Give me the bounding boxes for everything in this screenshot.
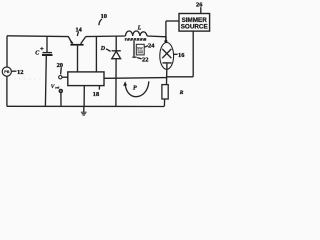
control box 18: [68, 72, 104, 86]
label D leader: [106, 49, 111, 52]
current path P arrow arrowhead: [123, 81, 127, 86]
current path P arc: [125, 81, 149, 96]
wire simmer feed down to lamp node: [165, 21, 167, 41]
svg-text:20: 20: [57, 62, 63, 69]
svg-text:SW: SW: [137, 46, 143, 50]
wire simmer return vertical: [192, 31, 194, 77]
svg-text:P: P: [133, 86, 137, 92]
resistor R: [162, 85, 168, 99]
capacitor plus sign: [40, 47, 43, 50]
switch SW foot: [132, 57, 136, 58]
label 16 leader: [174, 53, 178, 55]
capacitor C plates: [42, 53, 53, 55]
svg-text:PB: PB: [4, 70, 10, 74]
input terminal 20: [59, 76, 62, 79]
wire box bottom to rail: [83, 86, 85, 107]
svg-text:L: L: [137, 25, 142, 31]
wire lamp bottom to resistor: [166, 69, 168, 84]
collector slant: [81, 37, 86, 44]
svg-text:C: C: [35, 51, 40, 57]
switch SW box 22: [136, 44, 144, 55]
svg-text:24: 24: [148, 42, 155, 49]
lamp T electrode: [163, 62, 172, 64]
svg-text:12: 12: [17, 69, 23, 76]
diode D line upper: [115, 36, 117, 51]
inductor core: [125, 38, 146, 41]
svg-text:R: R: [179, 90, 184, 96]
inductor L: [126, 31, 148, 36]
emitter slant: [68, 37, 72, 44]
svg-text:V: V: [51, 84, 55, 90]
wire left vertical upper: [6, 36, 8, 67]
wire vertical top to box (x=96.5): [95, 36, 97, 72]
label 26 leader: [200, 7, 202, 13]
ground: [81, 112, 87, 115]
pushbutton PB 12: [2, 67, 11, 76]
wire Vref to bottom rail: [60, 93, 62, 107]
simmer source box 26: [179, 14, 210, 32]
label Vref: [51, 84, 60, 90]
label 12 leader: [12, 70, 17, 72]
diode D line lower: [115, 59, 117, 107]
scan smudge (faint): [9, 78, 42, 80]
svg-text:26: 26: [196, 2, 203, 9]
label 18 leader: [98, 86, 100, 90]
svg-text:22: 22: [142, 56, 148, 63]
label 14 leader: [77, 32, 78, 37]
label 22 leader: [137, 58, 141, 59]
wire top right (inductor to lamp junction): [147, 36, 166, 40]
svg-text:14: 14: [75, 26, 82, 33]
svg-text:ref: ref: [55, 86, 60, 90]
base stem down to box: [77, 46, 79, 72]
wire simmer stub horizontal: [166, 20, 179, 22]
wire resistor bottom: [163, 99, 165, 107]
wire terminal 20 to box: [62, 76, 68, 78]
wire simmer return horizontal: [167, 76, 193, 78]
junction dot lamp top: [164, 40, 167, 43]
svg-text:D: D: [100, 46, 106, 52]
switch SW winding line: [133, 41, 135, 57]
wire top middle (transistor right to inductor): [86, 35, 126, 38]
ground stem: [83, 106, 85, 112]
Vref terminal: [59, 89, 62, 92]
wire top-left horizontal: [7, 35, 69, 38]
svg-text:16: 16: [178, 52, 185, 59]
diode D: [112, 51, 121, 59]
base bar: [70, 44, 83, 46]
label 24 leader: [145, 46, 148, 48]
wire left vertical lower: [6, 76, 8, 106]
label 10 leader: [99, 19, 102, 25]
wire box right to lamp node: [104, 77, 167, 80]
svg-text:SOURCE: SOURCE: [181, 23, 208, 30]
label 20 leader: [60, 67, 63, 74]
transistor Q 14: [68, 37, 86, 72]
wire bottom rail: [7, 105, 164, 107]
emitter arrowhead: [70, 40, 73, 43]
flashlamp 16: [160, 43, 174, 70]
svg-text:18: 18: [93, 91, 99, 98]
capacitor C stem lower: [44, 56, 47, 106]
lamp X electrode: [162, 49, 171, 58]
capacitor C stem upper: [46, 36, 48, 52]
